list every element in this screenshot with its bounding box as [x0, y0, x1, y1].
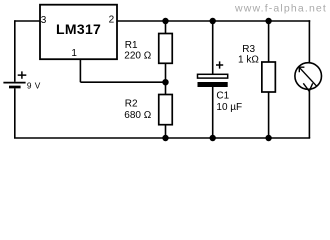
svg-text:10 µF: 10 µF [216, 102, 242, 113]
wire R1 top lead [165, 21, 167, 34]
wire pin3 to left rail [15, 20, 40, 22]
battery plus sign [18, 71, 27, 78]
wire pin1 to R1/R2 node [80, 81, 165, 83]
battery BT1 positive plate [3, 82, 25, 84]
wire C1 top lead [212, 21, 214, 74]
resistor R2 body [159, 95, 173, 125]
svg-text:1 kΩ: 1 kΩ [238, 54, 259, 65]
wire right rail top [308, 20, 310, 63]
C1 plus sign [216, 61, 223, 68]
node R3 bottom junction [265, 135, 271, 141]
op-amp U1 LM317 body [40, 5, 117, 60]
wire top rail (pin 2 to right rail) [117, 20, 310, 22]
wire R3 bottom lead [268, 92, 270, 138]
wire right rail bottom [308, 89, 310, 138]
node R1 top junction [162, 18, 168, 24]
svg-text:C1: C1 [216, 91, 229, 102]
wire left rail bottom (battery - to bottom rail) [14, 88, 16, 138]
wire R2 top lead [165, 82, 167, 94]
svg-text:220 Ω: 220 Ω [124, 51, 151, 62]
node R2 bottom junction [162, 135, 168, 141]
capacitor C1 negative plate [198, 82, 228, 87]
resistor R3 body [262, 62, 276, 92]
svg-text:R1: R1 [125, 40, 138, 51]
wire left rail top (to battery +) [14, 20, 16, 82]
svg-text:680 Ω: 680 Ω [124, 110, 151, 121]
voltmeter V mark [303, 83, 312, 91]
svg-text:1: 1 [71, 48, 77, 59]
battery BT1 negative plate [9, 86, 21, 89]
svg-text:9 V: 9 V [27, 80, 41, 90]
capacitor C1 positive plate [198, 74, 228, 78]
wire C1 bottom lead [212, 87, 214, 138]
wire R1 bottom lead [165, 63, 167, 82]
svg-text:2: 2 [109, 14, 115, 25]
svg-text:3: 3 [41, 15, 47, 26]
wire R2 bottom lead [165, 125, 167, 138]
wire R3 top lead [268, 21, 270, 62]
svg-text:R3: R3 [242, 44, 255, 55]
voltmeter M1 body [295, 63, 322, 90]
node R3 top junction [265, 18, 271, 24]
node C1 top junction [210, 18, 216, 24]
svg-text:www.f-alpha.net: www.f-alpha.net [234, 3, 327, 15]
svg-text:LM317: LM317 [56, 21, 101, 37]
voltmeter needle [299, 67, 317, 86]
svg-text:R2: R2 [125, 99, 138, 110]
resistor R1 body [159, 34, 173, 64]
node adj junction [162, 79, 168, 85]
voltmeter needle arrowhead [299, 67, 304, 72]
node C1 bottom junction [210, 135, 216, 141]
wire pin1 down [79, 59, 81, 82]
wire bottom rail [14, 137, 310, 139]
